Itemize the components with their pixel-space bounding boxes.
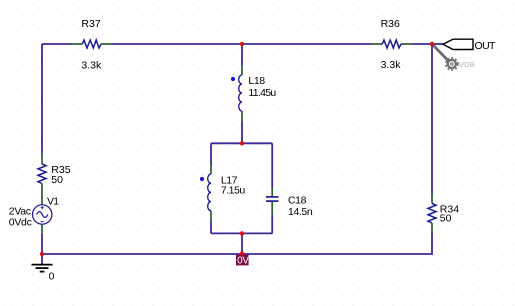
- svg-text:7.15u: 7.15u: [221, 185, 245, 197]
- svg-text:3.3k: 3.3k: [81, 60, 102, 72]
- wire tank top side: [211, 142, 272, 144]
- wire tank left side upper: [210, 143, 212, 165]
- svg-text:11.45u: 11.45u: [248, 87, 276, 99]
- voltage source V1: [33, 195, 52, 234]
- svg-text:50: 50: [51, 174, 63, 186]
- resistor R35: [38, 153, 46, 195]
- ground 0: [32, 254, 53, 272]
- wire junction to off-page connector: [432, 43, 443, 45]
- wire tank right side upper: [271, 143, 273, 188]
- phase dot L17: [200, 177, 204, 181]
- junction node tank bottom: [240, 231, 244, 235]
- svg-text:V1: V1: [47, 196, 59, 208]
- wire top-left segment: [42, 43, 72, 45]
- wire top middle segment: [112, 43, 373, 45]
- svg-text:R37: R37: [81, 18, 100, 30]
- svg-text:C18: C18: [288, 195, 307, 207]
- net label 0V: [236, 255, 249, 267]
- svg-text:50: 50: [440, 212, 452, 224]
- svg-text:14.5n: 14.5n: [288, 206, 313, 218]
- resistor R36: [372, 40, 412, 48]
- wire tank right side lower: [271, 214, 273, 233]
- wire L18 to tank top: [241, 121, 243, 143]
- svg-text:3.3k: 3.3k: [381, 59, 402, 71]
- svg-text:L18: L18: [248, 75, 265, 87]
- inductor L18: [239, 65, 242, 121]
- svg-text:OUT: OUT: [475, 40, 497, 52]
- wire tank left side lower: [210, 221, 212, 233]
- wire tank bottom side: [211, 232, 272, 234]
- junction node bottom bus: [240, 251, 244, 255]
- wire tank bottom to bus: [241, 233, 243, 254]
- off-page connector OUT: [443, 39, 473, 49]
- junction node at ground: [40, 252, 44, 256]
- inductor L17: [208, 164, 211, 221]
- wire right vertical lower: [242, 233, 432, 254]
- probe VDB: [433, 45, 458, 70]
- wire bottom left segment: [42, 234, 242, 254]
- svg-text:2Vac: 2Vac: [9, 205, 31, 217]
- junction node at output: [430, 42, 434, 46]
- capacitor C18: [266, 188, 279, 214]
- resistor R34: [428, 194, 436, 234]
- phase dot L18: [231, 77, 235, 81]
- resistor R37: [72, 40, 112, 48]
- svg-text:0V: 0V: [237, 256, 249, 267]
- wire right vertical upper: [431, 44, 433, 194]
- junction node tank top: [240, 141, 244, 145]
- svg-text:R36: R36: [381, 18, 400, 30]
- junction node top of L18 branch: [240, 42, 244, 46]
- wire left vertical upper: [41, 44, 43, 153]
- svg-text:0: 0: [49, 271, 55, 283]
- svg-text:0Vdc: 0Vdc: [9, 217, 32, 229]
- svg-text:VDB: VDB: [459, 60, 475, 69]
- wire L18 branch upper: [241, 44, 243, 65]
- wire R36 to output junction: [412, 43, 432, 45]
